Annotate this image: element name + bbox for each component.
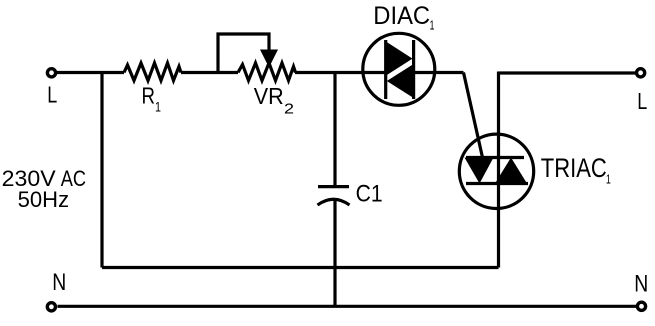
- potentiometer VR2 wiper arrow: [260, 50, 278, 68]
- diac DIAC1 circle: [363, 33, 435, 105]
- wire bottom rail N: [58, 305, 637, 308]
- diac DIAC1 lower triangle: [387, 64, 414, 98]
- svg-text:C1: C1: [356, 180, 383, 207]
- svg-text:N: N: [634, 270, 648, 297]
- diac DIAC1 left bar: [384, 40, 387, 99]
- svg-text:1: 1: [430, 18, 435, 33]
- wire main vertical through TRIAC: [497, 72, 500, 268]
- wire DIAC to gate corner: [414, 71, 464, 74]
- terminal L top-left: [47, 69, 55, 77]
- svg-text:2: 2: [284, 101, 294, 118]
- wire top-right to L terminal: [499, 71, 636, 74]
- resistor R1: [124, 63, 181, 81]
- svg-text:1: 1: [155, 99, 161, 115]
- wire inner bottom rail: [102, 266, 499, 269]
- potentiometer VR2 body: [238, 63, 296, 81]
- svg-text:N: N: [52, 269, 66, 296]
- diac DIAC1 right bar: [412, 40, 415, 99]
- svg-text:1: 1: [606, 171, 611, 186]
- triac TRIAC1 bottom bar MT1: [466, 182, 528, 185]
- svg-text:TRIAC: TRIAC: [541, 153, 607, 183]
- capacitor C1 top plate: [318, 185, 349, 188]
- triac TRIAC1 circle: [459, 134, 533, 208]
- terminal L top-right: [637, 69, 645, 77]
- svg-text:50Hz: 50Hz: [18, 187, 69, 212]
- svg-text:VR: VR: [254, 83, 284, 109]
- svg-text:R: R: [142, 82, 156, 108]
- wire VR2 to DIAC: [295, 71, 386, 74]
- svg-text:L: L: [637, 88, 647, 114]
- wire L terminal to R1: [57, 71, 124, 74]
- node C1 junction: [333, 73, 336, 186]
- terminal N bottom-right: [637, 302, 645, 310]
- wire gate diagonal to TRIAC: [464, 73, 483, 158]
- wire R1 to VR2: [181, 71, 238, 74]
- triac TRIAC1 right triangle: [495, 158, 527, 184]
- capacitor C1 bottom plate: [318, 199, 350, 205]
- svg-text:DIAC: DIAC: [373, 2, 430, 30]
- wire C1 to bottom rail: [333, 200, 336, 307]
- terminal N bottom-left: [47, 303, 55, 311]
- triac TRIAC1 top bar MT2: [466, 156, 524, 159]
- triac TRIAC1 left triangle: [465, 158, 494, 184]
- diac DIAC1 upper triangle: [386, 41, 413, 75]
- node junction left vertical: [100, 73, 103, 268]
- potentiometer VR2 wiper loop wire: [218, 34, 269, 73]
- svg-text:L: L: [47, 82, 57, 108]
